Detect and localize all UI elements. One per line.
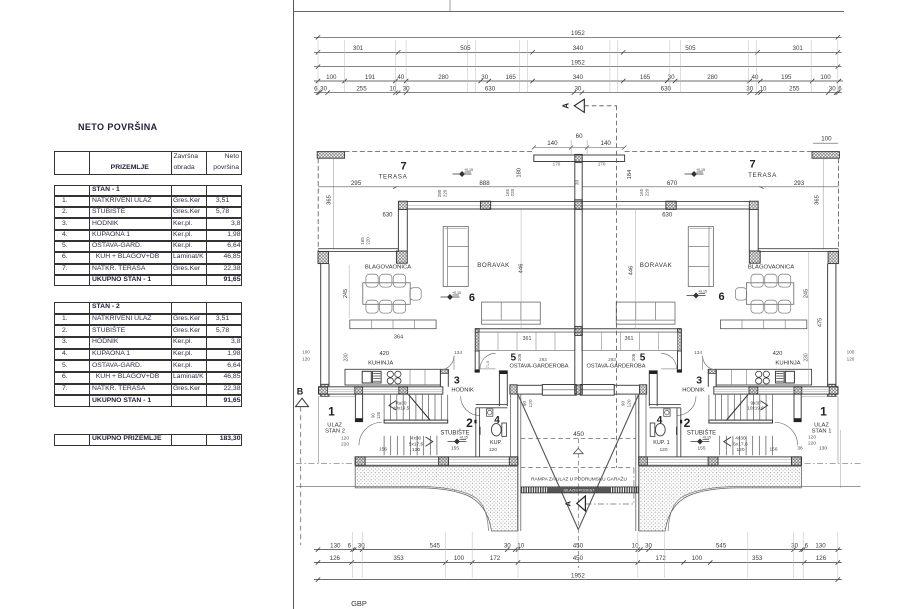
svg-text:30: 30 (358, 543, 365, 550)
svg-text:220: 220 (365, 237, 370, 245)
svg-text:630: 630 (485, 86, 496, 93)
svg-text:888: 888 (479, 180, 490, 187)
svg-text:HODNIK: HODNIK (451, 387, 474, 393)
svg-text:280: 280 (707, 74, 718, 81)
ramp west wall (517, 394, 519, 531)
table title NETO POVRSINA (78, 122, 158, 132)
svg-text:BORAVAK: BORAVAK (640, 262, 673, 269)
svg-text:630: 630 (382, 212, 393, 218)
svg-text:220: 220 (510, 188, 515, 196)
svg-text:KUP. 1: KUP. 1 (653, 440, 669, 446)
svg-text:30: 30 (574, 86, 581, 93)
ramp center dashed line (577, 439, 579, 569)
stairs lower arrow (426, 437, 433, 446)
svg-text:505: 505 (460, 45, 471, 52)
svg-text:156: 156 (769, 447, 777, 453)
svg-text:120: 120 (528, 399, 534, 407)
kitchen burners (387, 371, 393, 377)
svg-text:A: A (564, 501, 573, 507)
svg-text:OSTAVA-GARDEROBA: OSTAVA-GARDEROBA (509, 363, 568, 369)
porch top edge line (319, 396, 356, 398)
svg-text:7: 7 (749, 159, 755, 171)
svg-text:STAN 2: STAN 2 (325, 429, 345, 435)
svg-text:100: 100 (847, 350, 855, 355)
south band sill lines (327, 388, 442, 390)
garage dark band (521, 487, 639, 493)
right half: mirrored geometry (578, 152, 860, 532)
svg-text:120: 120 (412, 447, 420, 453)
chimney bar center hatch (575, 154, 582, 162)
ramp top dashed line 450 (521, 438, 636, 440)
elevation marker terrace left (453, 172, 472, 177)
svg-text:+0,15: +0,15 (696, 168, 705, 172)
svg-text:170: 170 (598, 161, 606, 166)
room5 north wall (475, 328, 578, 330)
svg-text:TERASA: TERASA (748, 172, 777, 179)
dim line 888 segment (397, 186, 575, 188)
svg-text:420: 420 (773, 351, 783, 357)
hodnik-stair door arc (461, 396, 480, 415)
svg-text:3: 3 (696, 375, 702, 387)
svg-text:KUHINJA: KUHINJA (775, 360, 800, 366)
svg-text:BLAGOVAONICA: BLAGOVAONICA (748, 264, 794, 270)
svg-text:100: 100 (454, 555, 465, 562)
room5 south wall (517, 385, 542, 394)
svg-text:6: 6 (348, 543, 352, 550)
elevation marker stubiste left (448, 439, 467, 444)
ramp dashed line y=467.6 (521, 467, 634, 469)
svg-text:120: 120 (302, 357, 310, 362)
svg-text:353: 353 (752, 555, 763, 562)
svg-text:71,5: 71,5 (486, 361, 490, 368)
walkway outer curb (296, 487, 489, 531)
right side extension line (839, 430, 841, 488)
room5 west wall (474, 350, 476, 369)
room5 south wall pier (510, 385, 517, 394)
svg-text:130: 130 (819, 446, 827, 452)
terrace dim line 295 (318, 186, 397, 188)
svg-text:1952: 1952 (571, 573, 585, 580)
dining chairs (366, 274, 421, 313)
svg-text:7: 7 (400, 161, 406, 173)
stairs up-arrow (389, 401, 396, 410)
svg-text:120: 120 (808, 435, 816, 441)
table row UKUPNO PRIZEMLJE (54, 434, 242, 446)
svg-text:1: 1 (820, 405, 827, 419)
svg-text:155: 155 (451, 445, 459, 451)
svg-text:220: 220 (644, 188, 649, 196)
svg-text:545: 545 (716, 543, 727, 550)
terrace north dashed edge (345, 151, 534, 153)
pier west wall top (396, 251, 407, 263)
svg-text:5x17,6: 5x17,6 (733, 441, 748, 447)
south band wall kitchen/stairs (319, 387, 443, 394)
svg-text:172: 172 (656, 555, 667, 562)
svg-text:245: 245 (343, 289, 349, 298)
svg-text:120: 120 (489, 447, 497, 453)
table header (54, 151, 242, 175)
svg-text:295: 295 (351, 180, 362, 187)
svg-text:280: 280 (438, 74, 449, 81)
svg-text:293: 293 (539, 357, 547, 362)
svg-text:155: 155 (697, 445, 705, 451)
svg-text:505: 505 (685, 45, 696, 52)
svg-text:361: 361 (523, 336, 532, 342)
svg-text:36: 36 (797, 446, 803, 452)
svg-text:126: 126 (330, 555, 341, 562)
hodnik west wall corner (439, 369, 441, 387)
wardrobe band (479, 332, 575, 350)
svg-text:361: 361 (625, 336, 634, 342)
svg-text:165: 165 (640, 74, 651, 81)
north wall pier left of window (398, 201, 407, 209)
bathroom west wall (475, 408, 477, 457)
svg-text:+0,15: +0,15 (464, 168, 473, 172)
kitchen island band (350, 320, 436, 329)
svg-text:30: 30 (829, 86, 836, 93)
stairs upper flight (384, 395, 448, 420)
dimension extension lines top (318, 40, 838, 93)
svg-text:446: 446 (629, 266, 635, 276)
svg-text:134: 134 (694, 350, 702, 356)
section line A vertical dashed (616, 106, 618, 468)
svg-text:RAMPA ZA ULAZ U PODRUMSKU GARA: RAMPA ZA ULAZ U PODRUMSKU GARAŽU (531, 474, 627, 482)
svg-text:172: 172 (490, 555, 501, 562)
dimension extension lines bottom (353, 532, 838, 578)
svg-text:30: 30 (320, 86, 327, 93)
svg-text:BORAVAK: BORAVAK (477, 262, 510, 269)
NW terrace pier (hatched) (317, 152, 344, 159)
svg-text:A: A (562, 103, 571, 109)
entrance door arc (359, 422, 382, 445)
left 245 dim line (348, 265, 350, 318)
terrace inner line (332, 158, 334, 249)
svg-text:353: 353 (393, 555, 404, 562)
svg-text:293: 293 (608, 357, 616, 362)
svg-text:130: 130 (330, 543, 341, 550)
kitchen sink (362, 371, 371, 383)
svg-text:+0,15: +0,15 (452, 291, 461, 295)
stair hall west wall stub (354, 394, 356, 422)
blagovaonica north window band (318, 248, 399, 250)
south exterior wall band (355, 457, 518, 465)
svg-text:280: 280 (437, 189, 442, 197)
svg-text:HODNIK: HODNIK (682, 387, 705, 393)
svg-text:100: 100 (821, 136, 832, 143)
svg-text:140: 140 (601, 140, 612, 147)
porch south dash line (296, 462, 355, 464)
svg-text:+0,15: +0,15 (698, 290, 707, 294)
terrace west dashed edge (317, 158, 319, 251)
elevation marker boravak left (441, 295, 460, 300)
elevation marker terrace right (685, 172, 704, 177)
window band middle pier (480, 201, 490, 209)
wall between terrace and dining (397, 210, 399, 252)
svg-text:140: 140 (547, 140, 558, 147)
svg-text:630: 630 (662, 212, 673, 218)
bathroom sink (487, 409, 493, 416)
svg-text:420: 420 (379, 351, 389, 357)
ramp V slope right (578, 394, 639, 529)
section A bottom arrow (577, 496, 586, 511)
svg-text:450: 450 (573, 431, 584, 438)
svg-text:6: 6 (469, 292, 475, 304)
svg-text:SILAZNI PODEST: SILAZNI PODEST (563, 489, 595, 493)
room5 NW pier (475, 329, 479, 351)
right 245/475 dim line (808, 252, 810, 384)
svg-text:TERASA: TERASA (379, 174, 408, 181)
hodnik east wall cap (499, 370, 507, 374)
svg-text:GBP: GBP (351, 599, 367, 608)
svg-text:6: 6 (838, 86, 842, 93)
svg-text:156: 156 (379, 447, 387, 453)
svg-text:1952: 1952 (571, 30, 585, 37)
svg-text:ULAZ: ULAZ (327, 422, 342, 428)
svg-text:KUP.: KUP. (490, 440, 502, 446)
svg-text:120: 120 (659, 447, 667, 453)
interior light line boravak east (520, 209, 522, 329)
bathroom top wall (476, 404, 508, 406)
elevation marker stubiste right (691, 439, 710, 444)
elevation marker boravak right (687, 293, 706, 298)
svg-text:340: 340 (573, 74, 584, 81)
svg-text:301: 301 (353, 45, 364, 52)
svg-text:220: 220 (808, 440, 816, 446)
svg-text:100: 100 (692, 555, 703, 562)
svg-text:10x19,5: 10x19,5 (393, 406, 410, 411)
svg-text:475: 475 (818, 318, 824, 327)
svg-text:30: 30 (481, 74, 488, 81)
svg-text:134: 134 (454, 350, 462, 356)
bottom dimension row 1952 (314, 579, 842, 581)
svg-text:1952: 1952 (571, 60, 585, 67)
svg-text:4: 4 (494, 415, 500, 426)
svg-text:670: 670 (667, 180, 678, 187)
svg-text:220: 220 (442, 189, 447, 197)
svg-text:30: 30 (668, 74, 675, 81)
svg-text:206: 206 (631, 353, 636, 361)
svg-text:90: 90 (522, 401, 528, 407)
svg-text:165: 165 (360, 237, 365, 245)
stairs landing bar (384, 420, 448, 423)
svg-text:4: 4 (657, 415, 663, 426)
walkway stipple left (355, 466, 518, 531)
svg-text:255: 255 (789, 86, 800, 93)
top dimension row E (314, 92, 842, 94)
svg-text:120: 120 (341, 436, 349, 442)
svg-text:10: 10 (760, 86, 767, 93)
svg-text:120: 120 (627, 399, 633, 407)
svg-text:170: 170 (553, 161, 561, 166)
svg-text:10: 10 (517, 543, 524, 550)
bathroom wc (502, 423, 507, 436)
svg-text:100: 100 (326, 74, 337, 81)
svg-text:6: 6 (314, 86, 318, 93)
chimney top dims 140/60/140 (534, 147, 625, 149)
west exterior wall (320, 264, 322, 385)
svg-text:165: 165 (506, 74, 517, 81)
svg-text:40: 40 (752, 74, 759, 81)
hodnik east wall (498, 370, 500, 406)
chimney stem hatch bottom (575, 385, 582, 394)
dining table (363, 283, 410, 305)
stairs cut diagonal (409, 395, 431, 420)
chimney stem hatch at window band (575, 200, 582, 210)
svg-text:60: 60 (576, 133, 583, 140)
svg-text:30: 30 (504, 543, 511, 550)
section jog dash-dot (633, 468, 635, 504)
chimney stem hatch at room5 wall (575, 326, 582, 335)
svg-text:293: 293 (794, 180, 805, 187)
svg-text:2: 2 (466, 416, 473, 430)
kitchen counter (345, 369, 440, 385)
svg-text:B: B (297, 387, 304, 397)
svg-text:365: 365 (327, 195, 333, 205)
svg-text:+0,15: +0,15 (702, 436, 711, 440)
benchmark triangle (573, 448, 583, 453)
chimney stem (574, 162, 576, 394)
svg-text:120: 120 (736, 447, 744, 453)
svg-text:446: 446 (519, 264, 525, 274)
svg-text:130: 130 (815, 543, 826, 550)
stairs lower flight (384, 436, 437, 456)
sheet border top horizontal (294, 11, 845, 13)
svg-text:245: 245 (803, 289, 809, 298)
svg-text:120: 120 (847, 357, 855, 362)
boravak north window band (407, 201, 578, 203)
ramp V slope left (518, 394, 579, 529)
svg-text:1: 1 (328, 405, 335, 419)
svg-text:90: 90 (371, 413, 376, 418)
svg-text:100: 100 (302, 350, 310, 355)
svg-text:10x19,6: 10x19,6 (747, 406, 764, 411)
svg-text:365: 365 (815, 195, 821, 205)
table block STAN-1 (54, 185, 242, 196)
svg-text:90: 90 (621, 401, 627, 407)
kitchen dishwasher (373, 371, 382, 383)
sheet top tick (449, 0, 451, 12)
bath door jamb marks (474, 420, 476, 424)
svg-text:2: 2 (684, 416, 691, 430)
svg-text:340: 340 (573, 45, 584, 52)
svg-text:ULAZ: ULAZ (814, 422, 829, 428)
svg-text:9x30: 9x30 (751, 400, 761, 405)
svg-text:4x30: 4x30 (735, 435, 746, 441)
svg-text:30: 30 (575, 179, 581, 185)
svg-text:5x17,6: 5x17,6 (409, 441, 424, 447)
bottom dimension row G (314, 562, 842, 564)
svg-text:100: 100 (820, 74, 831, 81)
svg-text:126: 126 (816, 555, 827, 562)
top dimension row 1952 (A) (314, 36, 842, 38)
top dimension row D (314, 80, 843, 82)
svg-text:364: 364 (394, 335, 403, 341)
svg-text:4x30: 4x30 (411, 435, 422, 441)
table block STAN-2 (54, 302, 242, 314)
room5 west wall cap (475, 369, 480, 372)
svg-text:180: 180 (516, 168, 522, 178)
svg-text:255: 255 (356, 86, 367, 93)
porch west edge line (318, 397, 320, 464)
svg-text:5: 5 (511, 353, 517, 364)
chimney horizontal bar (534, 155, 625, 162)
svg-text:30: 30 (645, 543, 652, 550)
top dimension row 1952 (C) (314, 66, 842, 68)
svg-text:OSTAVA-GARDEROBA: OSTAVA-GARDEROBA (586, 363, 645, 369)
svg-text:30: 30 (791, 543, 798, 550)
svg-text:195: 195 (781, 74, 792, 81)
svg-text:5: 5 (640, 353, 646, 364)
svg-text:BLAGOVAONICA: BLAGOVAONICA (365, 264, 411, 270)
room5 door arc (480, 353, 496, 369)
svg-text:40: 40 (397, 74, 404, 81)
svg-text:120: 120 (376, 411, 381, 419)
svg-text:Ra30: Ra30 (396, 400, 407, 405)
room5 south wide block (542, 385, 576, 396)
SW terrace corner pier (318, 251, 329, 263)
svg-text:STAN 1: STAN 1 (812, 429, 832, 435)
svg-text:230: 230 (344, 353, 350, 362)
kitchen-hodnik door arc (440, 356, 454, 370)
sheet border left vertical (293, 0, 295, 609)
svg-text:545: 545 (430, 543, 441, 550)
svg-text:206: 206 (517, 353, 522, 361)
svg-text:301: 301 (793, 45, 804, 52)
sofa 2 horizontal (482, 302, 541, 324)
bottom dimension row F (314, 549, 842, 551)
west wall lower pier (321, 384, 329, 396)
svg-text:220: 220 (341, 441, 349, 447)
svg-text:3: 3 (454, 375, 460, 387)
svg-text:30: 30 (746, 86, 753, 93)
svg-text:6: 6 (805, 543, 809, 550)
svg-text:191: 191 (365, 74, 376, 81)
sofa 1 vertical (443, 227, 468, 287)
svg-text:184: 184 (627, 169, 633, 179)
svg-text:6: 6 (718, 291, 724, 303)
svg-text:+0,15: +0,15 (459, 436, 468, 440)
top dimension row 301/505/340/505/301 (314, 51, 842, 53)
svg-text:KUHINJA: KUHINJA (368, 360, 393, 366)
